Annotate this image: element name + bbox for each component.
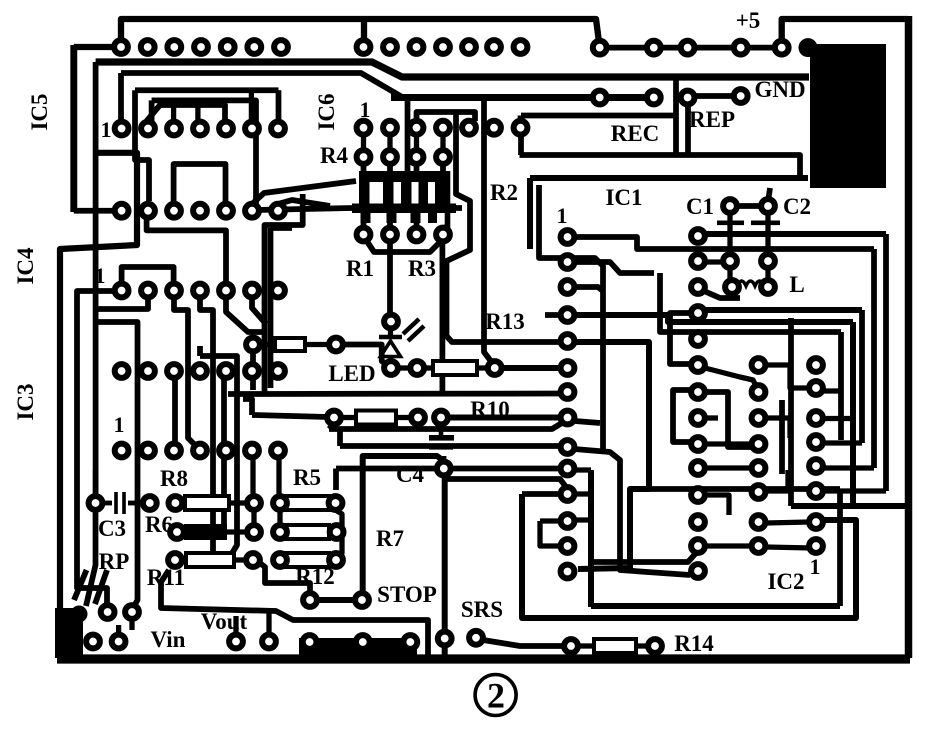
pad <box>273 553 287 567</box>
wire <box>276 90 282 121</box>
pad <box>329 338 343 352</box>
pad +5 row <box>647 41 661 55</box>
pad IC5 <box>115 204 129 218</box>
diag1 <box>252 181 356 204</box>
border lower <box>60 153 137 650</box>
pad <box>436 150 450 164</box>
pad <box>564 639 578 653</box>
diag3 <box>226 297 262 332</box>
pad header row2 <box>410 40 424 54</box>
pad <box>246 553 260 567</box>
svg-text:R6: R6 <box>145 512 173 537</box>
wire <box>414 134 419 151</box>
wire <box>705 495 729 515</box>
wire <box>685 103 691 155</box>
svg-text:C1: C1 <box>686 194 714 219</box>
wire <box>705 441 752 446</box>
pad2 hook <box>96 298 148 309</box>
wire <box>424 365 433 370</box>
wire <box>527 178 533 249</box>
bracket698a <box>670 313 692 364</box>
resistor R10 body <box>356 411 396 425</box>
svg-text:IC5: IC5 <box>27 93 52 130</box>
v3 left <box>93 62 99 503</box>
pad <box>593 91 607 105</box>
svg-text:REP: REP <box>689 107 735 132</box>
wire <box>361 163 367 172</box>
top rail <box>121 19 599 42</box>
svg-text:SRS: SRS <box>461 597 503 622</box>
pad header row <box>247 40 261 54</box>
wire <box>779 400 785 474</box>
C1 plate <box>717 221 744 226</box>
wire <box>243 399 252 415</box>
svg-text:R14: R14 <box>674 631 714 656</box>
pad IC2 colA <box>691 229 705 243</box>
svg-text:2: 2 <box>487 676 505 716</box>
wire <box>361 134 366 151</box>
pad IC2 colA <box>691 488 705 502</box>
v4 <box>200 356 237 555</box>
wire <box>388 356 393 362</box>
corner bump <box>71 606 88 623</box>
wire <box>766 365 809 388</box>
coil L <box>737 281 764 286</box>
pad IC2 colA <box>691 385 705 399</box>
wire <box>574 467 591 472</box>
wire <box>575 421 600 423</box>
pad IC4 <box>167 284 181 298</box>
pad <box>143 496 157 510</box>
pad +5 row <box>734 41 748 55</box>
pad IC4 <box>141 364 155 378</box>
pad IC6 <box>487 121 501 135</box>
pad <box>327 411 341 425</box>
pad IC2 colB <box>752 358 766 372</box>
pad <box>273 496 287 510</box>
wire <box>823 488 886 493</box>
wire <box>116 625 121 634</box>
IC1 frame top <box>530 175 808 181</box>
diag4 <box>252 297 266 324</box>
diag2 <box>278 200 330 206</box>
pad <box>761 280 775 294</box>
pad <box>383 228 397 242</box>
pad IC1 col <box>561 487 575 501</box>
svg-text:R8: R8 <box>160 466 188 491</box>
line322 <box>575 315 853 322</box>
pad <box>723 199 737 213</box>
pad IC2 colA <box>691 358 705 372</box>
pad IC6 <box>462 121 476 135</box>
blob diag2 <box>86 510 96 606</box>
pad IC1 col <box>561 230 575 244</box>
comb tooth r1 <box>383 182 394 204</box>
pad IC1 col <box>561 440 575 454</box>
comb tooth r2 <box>411 213 421 223</box>
svg-text:GND: GND <box>754 77 805 102</box>
pad <box>761 199 775 213</box>
pad IC4 <box>271 364 285 378</box>
pad IC2 colB <box>752 485 766 499</box>
trace B <box>121 73 403 98</box>
pad <box>403 635 417 649</box>
link503-532a <box>251 510 256 525</box>
pad IC1 col <box>561 565 575 579</box>
wire <box>737 203 761 209</box>
pad <box>384 361 398 375</box>
pad IC2 colC <box>809 539 823 553</box>
bracket698b <box>673 390 692 442</box>
wire <box>326 500 331 505</box>
pad IC2 colB <box>752 437 766 451</box>
comb tooth r2 <box>387 213 397 223</box>
R2 v2 <box>484 98 495 364</box>
pad +5 row <box>593 41 607 55</box>
comb top bar <box>359 171 450 182</box>
pad <box>169 496 183 510</box>
svg-text:Vout: Vout <box>201 609 248 634</box>
pad-solid <box>799 38 818 57</box>
wire <box>575 287 603 291</box>
pad IC2 colA <box>691 564 705 578</box>
bottom border <box>57 654 910 663</box>
pad IC5 <box>115 122 129 136</box>
wire <box>883 234 889 491</box>
blob diag1 <box>74 570 87 600</box>
pad IC2 colA <box>691 437 705 451</box>
pad header row2 <box>462 40 476 54</box>
wire <box>118 73 124 121</box>
wire <box>361 223 367 228</box>
v4 left <box>96 322 138 608</box>
pad IC3 <box>271 444 285 458</box>
wire <box>414 163 420 172</box>
pad IC2 colB <box>752 461 766 475</box>
wire <box>578 643 594 648</box>
R10 line L <box>252 415 328 417</box>
pad IC2 colA <box>691 411 705 425</box>
wire <box>522 491 561 497</box>
wire <box>588 470 594 607</box>
pad IC1 col <box>561 255 575 269</box>
wire <box>545 312 561 318</box>
pad <box>273 525 287 539</box>
pad header row2 <box>514 40 528 54</box>
wire <box>705 465 752 470</box>
svg-text:1: 1 <box>810 554 821 579</box>
svg-text:1: 1 <box>114 412 125 437</box>
wire <box>341 415 356 420</box>
pad IC2 colC <box>809 459 823 473</box>
svg-text:IC3: IC3 <box>13 383 38 420</box>
pad <box>125 605 139 619</box>
wire <box>233 616 238 634</box>
wire <box>439 429 444 435</box>
trace D <box>152 100 256 210</box>
pad IC5 <box>245 122 259 136</box>
pad <box>469 631 483 645</box>
pad IC4 <box>193 364 207 378</box>
pad <box>246 338 260 352</box>
wire <box>250 458 255 497</box>
C3 up stub <box>93 470 98 496</box>
pin1 trace <box>574 237 874 249</box>
pad <box>229 635 243 649</box>
pad <box>112 635 126 649</box>
pad <box>330 525 344 539</box>
wire <box>266 608 271 634</box>
s-link <box>705 368 756 386</box>
pad <box>262 635 276 649</box>
pad IC3 <box>245 444 259 458</box>
wire <box>414 223 420 228</box>
svg-text:L: L <box>789 272 804 297</box>
right border <box>905 16 912 658</box>
pad <box>303 635 317 649</box>
resistor body row532 <box>285 525 329 539</box>
pad IC5 <box>245 204 259 218</box>
wire <box>518 116 524 125</box>
svg-text:1: 1 <box>101 117 112 142</box>
pad IC3 <box>167 444 181 458</box>
wire <box>305 342 329 347</box>
pad IC4 <box>193 284 207 298</box>
svg-text:R10: R10 <box>470 397 510 422</box>
pad IC2 colA <box>691 332 705 346</box>
pad IC6 <box>383 121 397 135</box>
resistor R5 body <box>285 496 329 510</box>
wire <box>361 22 367 42</box>
pad IC1 col <box>561 514 575 528</box>
pad <box>89 496 103 510</box>
top-right rail <box>782 19 908 44</box>
comb tooth r1 <box>401 182 412 204</box>
svg-text:R4: R4 <box>320 143 349 168</box>
REC line <box>391 94 654 101</box>
resistor R9 body <box>275 338 305 351</box>
wire <box>477 365 488 370</box>
wire <box>448 415 561 421</box>
svg-text:R13: R13 <box>485 309 525 334</box>
pad IC2 colC <box>809 411 823 425</box>
v5 <box>250 350 256 390</box>
wire <box>333 469 339 491</box>
wire <box>837 489 843 606</box>
svg-text:REC: REC <box>611 121 660 146</box>
pad <box>488 361 502 375</box>
wire <box>540 521 568 546</box>
svg-text:C4: C4 <box>396 462 425 487</box>
comb right edge <box>445 171 451 228</box>
wire <box>574 491 591 496</box>
C4 vert <box>442 476 448 656</box>
wire <box>859 310 865 443</box>
pad IC1 col <box>561 280 575 294</box>
bus 234 <box>698 231 886 237</box>
pad IC6 <box>514 121 528 135</box>
bundle2b <box>574 449 690 575</box>
pad <box>383 150 397 164</box>
wire <box>727 268 732 280</box>
link 392-444 <box>705 392 752 447</box>
bundle3 <box>336 466 436 472</box>
pad <box>725 280 739 294</box>
pad <box>410 361 424 375</box>
pair L2 <box>268 228 274 388</box>
svg-text:IC2: IC2 <box>767 569 804 594</box>
comb wing R <box>450 205 462 211</box>
pad IC2 colC <box>809 435 823 449</box>
wire <box>823 416 853 421</box>
wire <box>765 213 770 254</box>
pad <box>384 315 398 329</box>
pad IC3 <box>219 444 233 458</box>
pad <box>356 635 370 649</box>
pad <box>681 91 695 105</box>
pad IC5 <box>271 204 285 218</box>
svg-text:1: 1 <box>557 203 568 228</box>
wire <box>443 226 447 230</box>
wire <box>483 640 564 646</box>
wire <box>727 213 732 254</box>
resistor R14 body <box>594 639 636 653</box>
resistor LED series body <box>433 361 477 375</box>
pad header row <box>141 40 155 54</box>
pad IC1 col <box>561 411 575 425</box>
svg-text:1: 1 <box>360 97 371 122</box>
pad IC2 colC <box>809 515 823 529</box>
wire <box>574 517 591 522</box>
pad <box>647 91 661 105</box>
wire <box>387 134 392 151</box>
pad <box>723 254 737 268</box>
pad +5 row <box>775 41 789 55</box>
pad <box>438 632 452 646</box>
pad IC2 colA <box>691 254 705 268</box>
wire <box>271 225 293 231</box>
wire <box>871 249 877 468</box>
pad header row2 <box>383 40 397 54</box>
comb wing L <box>256 208 352 210</box>
bundle1 <box>329 423 562 429</box>
pad <box>357 228 371 242</box>
+5 row <box>600 45 782 51</box>
wire <box>129 619 134 630</box>
wire <box>705 543 752 548</box>
pad IC4 <box>219 364 233 378</box>
resistor R8 body <box>185 496 229 510</box>
pad IC1 col <box>561 462 575 476</box>
pad IC2 colC <box>809 358 823 372</box>
wire <box>501 365 561 371</box>
pad <box>329 496 343 510</box>
wire <box>396 415 411 420</box>
pad IC6 <box>436 121 450 135</box>
wire <box>591 553 696 562</box>
pad <box>247 525 261 539</box>
svg-text:R1: R1 <box>346 256 374 281</box>
wire <box>149 100 155 122</box>
box bottom <box>228 391 561 397</box>
wire <box>197 346 203 356</box>
pad <box>101 605 115 619</box>
IC6 bracket <box>417 112 476 121</box>
bracket <box>540 518 568 523</box>
v-175 <box>172 377 178 444</box>
pad IC3 <box>141 444 155 458</box>
wire <box>227 529 247 534</box>
pad IC5 <box>219 122 233 136</box>
R4 drop <box>405 98 411 173</box>
line332 <box>660 273 841 332</box>
wire <box>440 134 445 151</box>
pad IC2 colA <box>691 306 705 320</box>
pad IC5 <box>167 122 181 136</box>
wire <box>441 456 446 461</box>
R3 line <box>440 242 446 392</box>
pad <box>170 525 184 539</box>
wire <box>195 105 200 121</box>
comb tooth r1 <box>359 182 370 204</box>
pad IC4 <box>115 364 129 378</box>
pad IC6 <box>357 121 371 135</box>
wire <box>817 465 874 470</box>
block fill <box>810 44 886 188</box>
pad IC5 <box>193 204 207 218</box>
svg-text:1: 1 <box>95 263 106 288</box>
pad IC1 col <box>561 308 575 322</box>
svg-text:STOP: STOP <box>377 582 437 607</box>
wire <box>337 431 343 446</box>
R7 box <box>363 456 444 593</box>
bundle2 <box>340 443 560 449</box>
wire <box>249 90 254 121</box>
pad IC5 <box>193 122 207 136</box>
pad IC5 <box>271 122 285 136</box>
pad IC4 <box>271 284 285 298</box>
pad header row <box>114 40 128 54</box>
pad header row <box>194 40 208 54</box>
pad IC2 colA <box>691 280 705 294</box>
v3 <box>221 377 227 524</box>
wire <box>636 643 648 648</box>
corner fill <box>55 608 83 658</box>
svg-text:IC4: IC4 <box>13 247 38 285</box>
svg-text:IC6: IC6 <box>314 93 339 130</box>
wire <box>768 188 770 202</box>
pad IC3 <box>193 444 207 458</box>
svg-text:LED: LED <box>328 361 375 386</box>
wire <box>765 470 788 491</box>
R1 line <box>387 243 393 315</box>
R2 v1 <box>447 112 562 342</box>
led sym <box>379 335 402 340</box>
pad <box>734 89 748 103</box>
wire <box>329 424 334 429</box>
v2 <box>200 297 213 553</box>
line489 <box>630 486 840 492</box>
C4 plate1 <box>429 435 454 441</box>
pad IC2 colC <box>809 484 823 498</box>
wire <box>838 332 844 440</box>
pad <box>410 228 424 242</box>
pad <box>355 593 369 607</box>
pad header row2 <box>487 40 501 54</box>
pad IC4 <box>219 284 233 298</box>
wire <box>276 458 281 497</box>
frame R <box>850 322 856 506</box>
